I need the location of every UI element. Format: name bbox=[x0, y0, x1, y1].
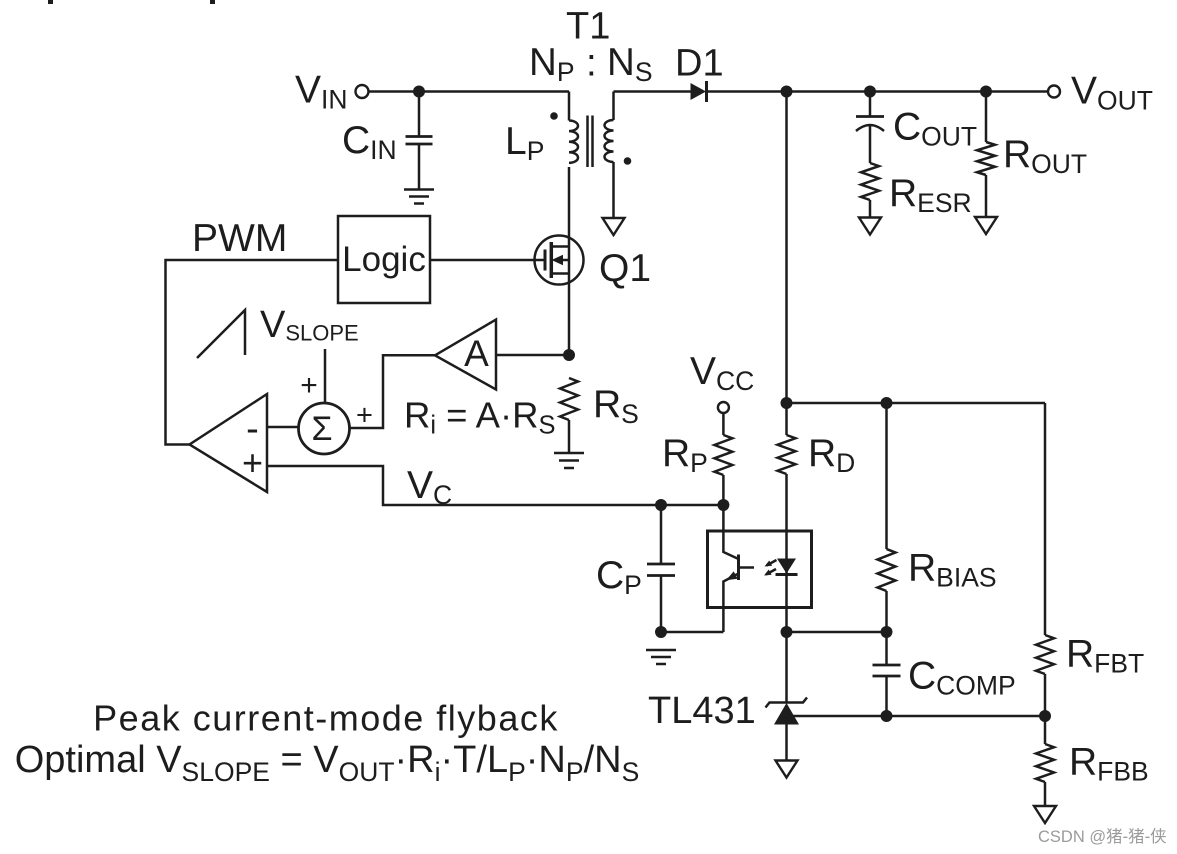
opto LED bbox=[776, 559, 798, 575]
capacitor CIN bbox=[342, 92, 433, 190]
resistor RBIAS bbox=[878, 403, 997, 632]
wire A output to summer bbox=[349, 355, 436, 428]
node VOUT terminal bbox=[1048, 70, 1153, 116]
node CP bottom junction bbox=[655, 626, 667, 638]
transistor Q1 bbox=[535, 167, 652, 355]
diode D1 bbox=[675, 43, 724, 103]
opto phototransistor bbox=[723, 505, 754, 632]
node ROUT junction bbox=[980, 86, 992, 98]
summer sigma bbox=[299, 403, 350, 454]
svg-text:+: + bbox=[356, 400, 373, 432]
svg-text:Σ: Σ bbox=[311, 410, 332, 448]
transformer core bbox=[588, 116, 593, 168]
svg-text:Peak current-mode flyback: Peak current-mode flyback bbox=[93, 698, 559, 739]
wire secondary to diode bbox=[614, 90, 691, 93]
capacitor CP bbox=[596, 505, 675, 632]
amplifier A bbox=[435, 320, 496, 390]
wire RD node to divider bbox=[787, 402, 1046, 405]
wire comparator plus input / VC bbox=[267, 466, 723, 505]
svg-text::: : bbox=[586, 42, 597, 85]
ramp symbol VSLOPE bbox=[197, 304, 359, 358]
wire PWM feedback loop bbox=[166, 260, 339, 445]
svg-text:CSDN @猪-猪-侠: CSDN @猪-猪-侠 bbox=[1038, 827, 1167, 846]
node CP junction bbox=[655, 499, 667, 511]
capacitor CCOMP bbox=[873, 632, 1016, 716]
wire VSLOPE to summer bbox=[324, 349, 327, 403]
wire VIN to transformer bbox=[369, 90, 570, 93]
capacitor COUT bbox=[856, 92, 977, 164]
wire diode to VOUT bbox=[707, 90, 1048, 93]
resistor RS bbox=[560, 378, 639, 453]
wire LED node to RBIAS bottom bbox=[787, 631, 887, 634]
ground arrow below ROUT bbox=[975, 217, 997, 234]
resistor RD bbox=[778, 432, 856, 702]
wire D1 node down to RD bbox=[785, 92, 788, 436]
opto light arrows bbox=[764, 560, 777, 576]
optocoupler U2 box bbox=[708, 531, 812, 608]
node D1 output junction bbox=[781, 86, 793, 98]
block Logic bbox=[338, 216, 430, 303]
svg-text:Logic: Logic bbox=[342, 240, 426, 279]
transformer T1 secondary winding bbox=[605, 92, 614, 219]
node VCC terminal bbox=[690, 350, 754, 413]
transformer T1 primary winding LP bbox=[505, 92, 578, 167]
ground arrow below RESR bbox=[859, 218, 881, 235]
primary phase dot bbox=[550, 112, 558, 120]
node feedback junction bbox=[1039, 710, 1051, 722]
wire CP to opto emitter bbox=[661, 631, 723, 634]
node RP junction bbox=[717, 499, 729, 511]
node opto LED bottom junction bbox=[781, 626, 793, 638]
ground for CP bbox=[646, 650, 676, 664]
svg-text:TL431: TL431 bbox=[648, 690, 756, 732]
ground arrow below RFBB bbox=[1034, 806, 1056, 823]
svg-text:A: A bbox=[464, 333, 489, 374]
node RD top junction bbox=[781, 397, 793, 409]
node input junction bbox=[413, 86, 425, 98]
node CCOMP bottom junction bbox=[881, 710, 893, 722]
cropped text remnant top-left bbox=[48, 0, 53, 4]
node RBIAS bottom junction bbox=[881, 626, 893, 638]
resistor RESR bbox=[861, 163, 972, 218]
svg-text:Optimal VSLOPE = VOUT·Ri·T/LP·: Optimal VSLOPE = VOUT·Ri·T/LP·NP/NS bbox=[15, 739, 640, 787]
node RS junction bbox=[563, 349, 575, 361]
resistor RFBT bbox=[1036, 403, 1144, 716]
ground for CIN bbox=[404, 190, 434, 204]
svg-text:PWM: PWM bbox=[192, 217, 287, 260]
svg-text:+: + bbox=[300, 369, 318, 402]
node RBIAS top junction bbox=[881, 397, 893, 409]
wire A input to Q1 source bbox=[497, 354, 569, 357]
secondary ground arrow bbox=[603, 218, 625, 235]
resistor RFBB bbox=[1036, 716, 1149, 806]
ground arrow below TL431 bbox=[776, 761, 798, 778]
ground for RS bbox=[554, 453, 584, 468]
shunt regulator TL431 bbox=[648, 690, 807, 761]
node COUT junction bbox=[864, 86, 876, 98]
secondary phase dot bbox=[624, 157, 632, 165]
wire Logic to Q1 gate bbox=[430, 259, 544, 262]
resistor ROUT bbox=[977, 92, 1087, 218]
svg-text:Ri = A·RS: Ri = A·RS bbox=[404, 395, 556, 440]
resistor RP bbox=[662, 413, 732, 505]
wire summer to comparator minus input bbox=[267, 426, 298, 429]
svg-text:Q1: Q1 bbox=[599, 247, 651, 290]
comparator U1 bbox=[190, 394, 268, 492]
cropped text remnant top-mid bbox=[210, 0, 215, 4]
node VIN terminal bbox=[295, 69, 369, 115]
svg-text:+: + bbox=[242, 442, 263, 483]
svg-text:D1: D1 bbox=[675, 43, 724, 85]
wire TL431 ref to feedback divider bbox=[787, 715, 1046, 718]
